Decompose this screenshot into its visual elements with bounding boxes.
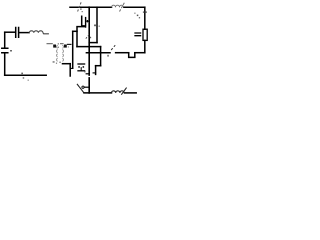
label dash near C2 bbox=[10, 50, 12, 52]
battery label dots bbox=[137, 15, 139, 17]
top rail right bbox=[124, 6, 145, 8]
grid caret bbox=[86, 35, 92, 39]
C3 lead up bbox=[82, 16, 85, 26]
staircase vertical bbox=[95, 66, 97, 75]
winding dots colon bbox=[58, 43, 59, 44]
wire C1 to R1 bbox=[19, 32, 29, 34]
capacitor C4 stem bbox=[80, 68, 82, 71]
emitter diagonal bbox=[77, 84, 84, 93]
cathode stub bbox=[84, 86, 89, 88]
node horizontal bbox=[73, 30, 77, 32]
capacitor C3 left plate bbox=[85, 18, 87, 27]
label dots above C3 bbox=[80, 8, 81, 9]
transformer bottom labels bbox=[53, 61, 55, 62]
transformer bottom wire bbox=[63, 63, 71, 65]
rheostat R2 slash bbox=[121, 88, 126, 95]
winding top stub right bbox=[60, 43, 64, 45]
capacitor C1 plates bbox=[16, 28, 19, 38]
transformer T1 right winding bbox=[62, 45, 63, 61]
bottom rail right bbox=[125, 92, 137, 94]
C3 lead left down bbox=[77, 27, 84, 47]
winding top stub left bbox=[47, 43, 53, 45]
top component slash bbox=[120, 2, 126, 12]
winding top bar bbox=[68, 43, 71, 45]
emitter foot bbox=[93, 72, 96, 74]
battery tick bbox=[143, 11, 147, 13]
capacitor bars right bbox=[135, 33, 141, 36]
horizontal mid bbox=[77, 46, 101, 48]
vertical from rail bbox=[96, 7, 98, 42]
switch dot below bbox=[107, 55, 109, 57]
right vertical lower bbox=[144, 40, 146, 52]
wire input top bbox=[5, 31, 15, 33]
rheostat R2 arcs bbox=[112, 88, 127, 95]
resistor R1 zigzag bbox=[29, 31, 48, 34]
C4 eye dots bbox=[78, 66, 80, 68]
bottom left rail bbox=[5, 74, 47, 76]
junction dot left bbox=[53, 45, 56, 48]
transformer T1 left winding bbox=[57, 45, 58, 61]
main vertical bbox=[88, 7, 90, 93]
wire left vertical bbox=[4, 32, 6, 47]
dot near C4 bbox=[84, 71, 85, 72]
bus wire bbox=[86, 52, 110, 54]
battery B1 rectangle bbox=[143, 29, 147, 40]
bottom rail bbox=[84, 92, 112, 94]
jog to main vertical bbox=[89, 42, 97, 44]
wire C2 to rail bbox=[4, 53, 6, 75]
top rail component arcs bbox=[112, 2, 126, 12]
top rail left bbox=[70, 6, 112, 8]
foot of long vertical bbox=[71, 67, 73, 69]
vertical drop x70 bbox=[69, 64, 71, 76]
tick on main vertical bbox=[86, 73, 89, 75]
long vertical to transformer bbox=[72, 31, 74, 68]
label dots rail left bbox=[21, 73, 23, 75]
capacitor C4 bottom bar bbox=[78, 70, 85, 72]
right vertical upper bbox=[144, 7, 146, 29]
rail break slash bbox=[78, 2, 82, 12]
dots near x97 bbox=[94, 25, 96, 27]
bus wire after switch bbox=[116, 52, 129, 54]
notch component bbox=[129, 53, 135, 58]
cathode circle bbox=[82, 86, 84, 88]
capacitor C2 plates bbox=[2, 48, 8, 53]
bus to right bbox=[135, 52, 145, 54]
junction dot right bbox=[64, 45, 67, 48]
capacitor C4 top bar bbox=[78, 63, 85, 65]
staircase horizontal bbox=[96, 65, 101, 67]
vertical to staircase bbox=[100, 47, 102, 66]
plus sign C3 bbox=[86, 20, 88, 22]
switch blade bbox=[111, 45, 115, 50]
